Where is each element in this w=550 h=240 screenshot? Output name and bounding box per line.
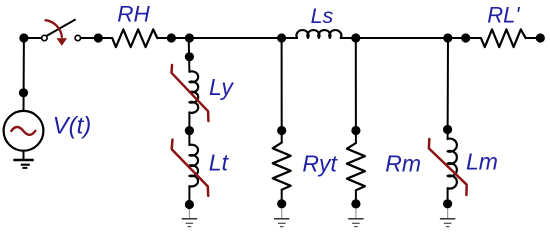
svg-text:Ls: Ls bbox=[311, 4, 334, 28]
svg-text:Ly: Ly bbox=[209, 74, 234, 100]
svg-text:V(t): V(t) bbox=[53, 113, 92, 140]
svg-text:RL': RL' bbox=[487, 2, 520, 27]
svg-text:Lm: Lm bbox=[466, 148, 498, 174]
svg-text:Ryt: Ryt bbox=[302, 151, 338, 177]
svg-text:RH: RH bbox=[117, 2, 150, 27]
svg-text:Lt: Lt bbox=[209, 149, 230, 175]
svg-text:Rm: Rm bbox=[385, 151, 421, 177]
